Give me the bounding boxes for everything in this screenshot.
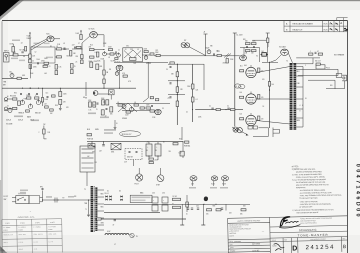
resistor R26: [246, 50, 251, 52]
wire trem bottom rail: [114, 61, 168, 63]
svg-text:NOTES:: NOTES:: [292, 166, 300, 168]
resistor trem network: [130, 58, 137, 61]
wire V2 grid diagonal: [82, 36, 90, 43]
svg-text:TONE-MASTER: TONE-MASTER: [298, 233, 329, 238]
wire: [72, 48, 82, 50]
wire inlet to transformer: [86, 172, 88, 186]
resistor R16: [97, 52, 99, 57]
corner fold soft edge: [0, 0, 24, 20]
resistor R71: [29, 65, 32, 69]
svg-text:0047146D00: 0047146D00: [354, 164, 360, 219]
lamp oval 1: [190, 176, 197, 181]
AC box text 2: [82, 152, 94, 154]
resistor R69: [216, 209, 221, 211]
revision row A stamp: [330, 23, 342, 25]
wire gnd box drop: [133, 160, 135, 166]
wire trem osc rail: [116, 103, 170, 105]
wire OT tap 2: [296, 75, 303, 77]
tube V6 cathode: [248, 75, 253, 77]
resistor R40: [103, 79, 105, 84]
tube V8 plate: [248, 118, 254, 120]
wire cap C32 lead: [157, 156, 159, 160]
resistor R46: [146, 107, 150, 109]
resistor R87: [26, 110, 30, 112]
potentiometer TREBLE: [20, 99, 24, 104]
wire AC line: [87, 141, 183, 143]
wire B+ feeder 2: [234, 33, 236, 127]
impedance block: [336, 74, 342, 78]
resistor R54: [216, 109, 220, 111]
wire: [103, 142, 105, 145]
wire footswitch line: [43, 199, 96, 201]
label oval 115V 60 CYCLES: [120, 131, 141, 137]
resistor R4 cathode: [29, 59, 32, 63]
junction tone 1: [22, 88, 23, 89]
junction ch2 b: [103, 101, 104, 102]
wire trem feed vertical: [147, 62, 149, 98]
resistor trem: [115, 58, 118, 60]
capacitor C33: [114, 220, 116, 221]
wire PI coupling drop: [192, 64, 194, 122]
wire PI grid arrows: [224, 54, 231, 58]
bias arrow: [246, 134, 249, 136]
border right: [347, 21, 349, 253]
svg-text:241254: 241254: [306, 245, 336, 252]
resistor R22: [217, 54, 221, 56]
label under oval 3: [220, 187, 228, 189]
wire T1 tap 1: [97, 189, 104, 191]
resistor R5 470K: [44, 62, 49, 64]
label fs top stack: [20, 190, 28, 192]
junction tone 3: [38, 88, 39, 89]
resistor R32: [27, 97, 31, 99]
wire spkr staircase 4: [326, 88, 345, 90]
bright switch box: [108, 90, 114, 95]
resistor R9 slope: [70, 51, 72, 57]
label smudge v1 c: [46, 57, 53, 59]
tube V5A trem osc: [155, 109, 161, 114]
capacitor C45: [106, 109, 108, 110]
wire V2 cathode vertical: [81, 43, 83, 64]
wire bias feed: [232, 127, 234, 129]
resistor R38: [96, 64, 99, 70]
wire signal bus to PI: [154, 55, 240, 57]
label smudge tone b: [31, 120, 39, 122]
junction: [226, 109, 227, 110]
wire bias bus drop right: [225, 204, 227, 210]
wire spkr staircase 2: [298, 75, 338, 77]
capacitor C40: [197, 208, 199, 209]
resistor R19: [144, 51, 148, 53]
resistor R73: [55, 65, 58, 70]
svg-text:10-4-93: 10-4-93: [252, 243, 260, 245]
label smudge ch2 b: [100, 117, 109, 119]
label smudge tone a: [14, 116, 23, 118]
wire OT top tap: [296, 57, 320, 59]
resistor R17: [109, 49, 113, 51]
wire bias rail: [95, 218, 186, 220]
resistor R85: [101, 110, 104, 115]
junction: [183, 141, 184, 142]
filter capacitor C35: [152, 205, 158, 211]
resistor R7: [57, 48, 62, 50]
resistor R61: [149, 162, 153, 164]
wire PI tail: [243, 48, 245, 57]
tube V4A phase inverter: [240, 55, 247, 61]
resistor R37: [90, 62, 93, 68]
potentiometer BASS: [28, 103, 32, 108]
wire fs out top: [40, 197, 43, 199]
wire ch2 drop: [85, 82, 87, 96]
input jack J3: [4, 107, 12, 111]
resistor R70: [241, 209, 246, 211]
label smudge input top: [12, 40, 20, 42]
resistor R10 plate: [80, 35, 82, 40]
junction: [177, 64, 178, 65]
wire trem out: [142, 54, 152, 56]
wire B+ feeder 3: [267, 33, 269, 62]
resistor R94 1M dark: [261, 53, 268, 57]
wire trem osc rail 2: [122, 110, 152, 112]
wire coupling: [62, 48, 69, 50]
power switch SW1: [111, 143, 121, 150]
wire PI right drop: [259, 48, 261, 63]
tube label oval V6: [234, 84, 240, 88]
svg-text:+: +: [153, 200, 154, 202]
power transformer T1 winding hatching: [91, 188, 98, 230]
potentiometer MIDDLE 2: [36, 99, 40, 104]
wire PI out lower 2: [270, 60, 276, 62]
resistor R24 PI plate: [246, 43, 251, 45]
capacitor C39: [191, 208, 193, 209]
resistor R48: [176, 72, 179, 77]
wire AC to inlet: [91, 142, 93, 146]
wire HV rail: [104, 212, 160, 214]
resistor R36: [59, 100, 62, 105]
polarity capacitor C43 dark: [204, 196, 208, 201]
svg-text:10-6-93: 10-6-93: [252, 250, 260, 252]
paper shading: [0, 235, 360, 253]
wire OT tap 1: [296, 66, 303, 68]
wire down to coupling: [103, 35, 105, 47]
resistor R49: [176, 87, 179, 93]
resistor R12: [81, 55, 84, 59]
bias resistor block 1: [248, 126, 252, 129]
arrowhead B+: [29, 32, 31, 34]
capacitor C11: [246, 47, 248, 48]
potentiometer MIDDLE: [10, 73, 14, 78]
capacitor C38b: [187, 208, 189, 209]
bias adjust pot circle 1: [233, 127, 238, 132]
potentiometer trem depth: [115, 71, 119, 76]
capacitor C5: [64, 48, 66, 49]
svg-text:+: +: [163, 200, 164, 202]
wire fs ground drop: [88, 200, 90, 215]
junction: [192, 109, 193, 110]
output transformer T2 winding hatching: [290, 65, 297, 129]
wire fs bottom: [12, 201, 16, 203]
input jack J2: [4, 98, 12, 102]
resistor grid stopper: [240, 96, 244, 98]
svg-text:FOOT: FOOT: [4, 196, 9, 198]
label under oval 2: [210, 187, 217, 189]
resistor R14: [90, 49, 95, 51]
wire box drop: [110, 95, 112, 100]
wire rail mid 2: [168, 94, 185, 96]
resistor R68: [207, 209, 212, 211]
label fs top stack 2: [20, 192, 26, 193]
wire screen supply vertical: [269, 62, 271, 128]
wire T1 tap 4: [97, 210, 104, 212]
fuse symbol: [88, 144, 95, 149]
diode D2: [109, 196, 111, 198]
wire plug riser: [312, 58, 314, 64]
resistor R89: [50, 109, 54, 111]
bias adjust pot circle 2: [237, 128, 242, 133]
RCA plug symbol: [54, 198, 60, 203]
output transformer T2 secondary winding: [294, 63, 296, 130]
tremolo circuit box: [123, 48, 143, 62]
connector plug P1: [316, 65, 325, 69]
scan corner fold (black triangle): [0, 0, 20, 17]
junction: [42, 88, 43, 89]
wire T1 tap 3: [97, 203, 104, 205]
diode D6: [120, 199, 122, 201]
wire screen top: [262, 61, 278, 63]
junction on rail 2: [103, 88, 104, 89]
resistor R86: [18, 101, 21, 105]
wire cap C31 lead: [148, 156, 150, 160]
revision table frame: [284, 18, 348, 32]
wire V3 cathode drop: [119, 71, 121, 88]
capacitor C13: [20, 94, 22, 95]
resistor R66: [186, 202, 189, 207]
bias board text 2: [132, 200, 146, 202]
label smudge v1 a: [34, 43, 40, 45]
wire B+ tick 2: [233, 32, 237, 34]
footswitch box 2: [29, 196, 40, 204]
notes text block: [292, 166, 342, 215]
resistor R62 inrush: [173, 143, 178, 145]
wire: [55, 48, 57, 50]
output transformer T2 core: [293, 63, 294, 130]
junction screen: [269, 89, 270, 90]
tremolo crossing wires: [124, 50, 141, 58]
tube V8 6L6 envelope: [246, 115, 256, 125]
wire PI out upper: [288, 53, 292, 63]
wire R79 leads: [43, 126, 45, 139]
capacitor C14: [28, 94, 30, 95]
resistor R45: [140, 107, 144, 109]
capacitor C42: [42, 189, 44, 190]
border left: [1, 21, 3, 253]
resistor R23 470K: [226, 59, 228, 64]
pilot lamp PL2: [130, 233, 134, 237]
tube V8 cathode: [248, 123, 253, 125]
tube V2 12AX7: [90, 32, 98, 38]
wire rail top: [168, 63, 204, 65]
resistor R76: [71, 70, 74, 74]
wire spkr staircase riser 2: [334, 80, 336, 89]
resistor R35: [59, 92, 62, 97]
wire bias wiper: [242, 132, 247, 135]
scan top edge shadow: [16, 0, 360, 1]
wire long signal rail: [2, 87, 136, 89]
wire PI out lower: [276, 55, 281, 60]
wire trem feed elbow: [143, 98, 148, 102]
wire V1 plate out: [54, 38, 60, 40]
wire: [55, 56, 57, 58]
capacitor C1: [22, 51, 23, 53]
junction: [119, 88, 120, 89]
wire pot to box: [98, 93, 109, 95]
wire V2 plate out: [97, 34, 104, 36]
capacitor C28 line: [102, 145, 105, 146]
potentiometer SPEED 2: [122, 104, 126, 109]
wire OT tap bus: [302, 67, 304, 128]
junction screen rail: [177, 80, 178, 81]
wire drop to gnd 1: [181, 204, 183, 225]
resistor R74: [55, 71, 58, 75]
wire bias loop: [253, 128, 269, 137]
fuse F1: [87, 134, 92, 136]
resistor R79: [43, 129, 45, 134]
tube V7 plate lead: [250, 92, 252, 94]
wire plate to OT lower: [256, 121, 290, 125]
power transformer T1 primary winding: [91, 186, 93, 232]
tube V7 cathode: [248, 101, 253, 103]
capacitor C12: [253, 47, 255, 48]
capacitor C trem in: [115, 52, 117, 53]
resistor screen 470: [258, 116, 260, 121]
resistor R81: [93, 102, 96, 107]
resistor R34: [41, 98, 43, 103]
junction: [92, 141, 93, 142]
resistor R15: [90, 56, 95, 58]
capacitor C27: [315, 52, 317, 53]
potentiometer VOLUME 2: [8, 108, 12, 113]
resistor R13: [81, 60, 84, 64]
resistor R78 thermistor: [180, 151, 184, 156]
junction: [82, 49, 83, 50]
junction: [103, 141, 104, 142]
resistor R21: [156, 54, 160, 56]
resistor R3: [29, 54, 32, 58]
AC box text 5: [82, 167, 94, 169]
wire tone stack drop: [42, 88, 44, 106]
resistor R56: [309, 53, 313, 55]
speaker jack J4: [342, 75, 346, 81]
resistor R65: [173, 206, 181, 208]
bright switch contacts: [109, 91, 113, 94]
AC box text 4: [82, 162, 94, 164]
wire spkr staircase riser 1: [337, 69, 339, 75]
junction ch2: [93, 104, 94, 105]
filter capacitor C34: [152, 197, 158, 203]
bias resistor block 2: [253, 126, 257, 129]
resistor R92: [150, 97, 153, 99]
tube V7 grid: [247, 99, 255, 101]
capacitor C6: [75, 47, 76, 49]
wire to V1 cathode diagonal: [31, 40, 47, 50]
resistor R27: [252, 50, 257, 52]
capacitor C23: [170, 97, 172, 98]
scan bottom edge shadow: [0, 252, 228, 253]
junction: [88, 200, 89, 201]
wire C32 top lead: [157, 142, 159, 144]
potentiometer VOLUME: [103, 51, 107, 56]
capacitor C10: [214, 53, 215, 55]
capacitor C3: [37, 63, 39, 64]
resistor R64: [173, 198, 181, 200]
lamp oval 3: [222, 176, 229, 181]
resistor R30 68K: [13, 98, 17, 100]
revision row B stamp: [330, 28, 338, 30]
wire OT tap 4: [296, 98, 303, 100]
resistor R88: [45, 106, 49, 108]
resistor R28: [17, 77, 21, 79]
svg-text:B: B: [343, 244, 346, 250]
resistor R8: [57, 56, 62, 58]
resistor R42: [118, 104, 122, 106]
wire OT tap 3: [296, 86, 303, 88]
junction: [104, 49, 105, 50]
resistor R25 PI plate: [252, 43, 257, 45]
wire C31 top lead: [148, 142, 150, 144]
wire V3 drop: [103, 60, 105, 88]
wire to V1 grid diagonal: [31, 39, 47, 47]
wire primary drop: [182, 142, 184, 158]
diode D1: [105, 196, 107, 198]
resistor R33: [35, 97, 39, 99]
capacitor C44: [97, 103, 99, 104]
label smudge ch2 a: [88, 113, 96, 115]
resistor R1 68K: [13, 54, 18, 56]
junction bias bus 2: [215, 204, 216, 205]
border top: [2, 20, 348, 22]
tube V7 plate: [248, 96, 254, 98]
resistor R91 1M: [12, 47, 15, 53]
capacitor table: [2, 215, 63, 253]
capacitor C25: [212, 108, 213, 110]
resistor R63: [97, 218, 101, 220]
potentiometer SPEED: [144, 55, 148, 60]
label smudge jack b: [19, 60, 25, 62]
wire OT tap 5: [296, 108, 303, 110]
filter capacitor C36: [162, 197, 168, 203]
resistor R2 1M: [25, 47, 27, 52]
wire drop to gnd 2: [202, 204, 204, 225]
capacitor C29: [129, 152, 131, 153]
wire OT tap 7: [296, 126, 303, 128]
svg-text:115V 60 CY: 115V 60 CY: [122, 134, 133, 136]
junction: [269, 62, 270, 63]
wire to trem: [106, 53, 116, 55]
resistor R43: [126, 111, 130, 113]
wire spkr staircase 1: [296, 68, 338, 70]
resistor R90: [52, 95, 56, 97]
capacitor C19: [151, 106, 153, 107]
potentiometer ch2 volume: [93, 91, 98, 96]
footswitch box: [16, 196, 29, 204]
potentiometer INTENSITY: [117, 52, 121, 57]
terminal bar 1: [180, 224, 184, 226]
resistor R50: [176, 101, 179, 107]
tube V7 6L6 envelope: [246, 94, 256, 104]
resistor R39: [103, 70, 105, 75]
speaker jack tip-sleeve: [273, 128, 280, 138]
wire fs out bottom: [40, 201, 43, 203]
